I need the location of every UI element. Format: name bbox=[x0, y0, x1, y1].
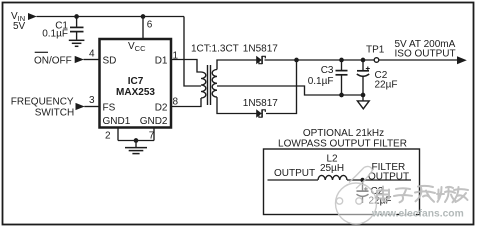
svg-text:D2: D2 bbox=[155, 102, 168, 113]
junction at VCC pin drop bbox=[141, 14, 146, 19]
svg-text:22µF: 22µF bbox=[375, 80, 398, 91]
svg-text:GND1: GND1 bbox=[103, 116, 131, 127]
transformer T1 core bbox=[208, 65, 211, 105]
svg-text:5V: 5V bbox=[13, 21, 26, 32]
wire VCC feed down to primary center tap bbox=[184, 17, 201, 87]
label L2 value bbox=[320, 154, 344, 175]
wire D2 pin 8 to primary bottom bbox=[171, 98, 201, 107]
label OPTIONAL 21kHz LOWPASS OUTPUT FILTER bbox=[278, 128, 407, 149]
svg-text:FS: FS bbox=[103, 102, 116, 113]
capacitor C1 bbox=[70, 17, 84, 40]
watermark hand logo bbox=[336, 166, 377, 224]
label FILTER OUTPUT right bbox=[368, 162, 409, 182]
junction filter cap tap bbox=[360, 178, 364, 182]
svg-text:1: 1 bbox=[173, 51, 179, 62]
test point TP1 bbox=[374, 58, 379, 63]
svg-text:3: 3 bbox=[89, 95, 95, 106]
svg-text:OUTPUT: OUTPUT bbox=[368, 171, 409, 182]
inductor L2 bbox=[318, 175, 347, 180]
svg-text:0.1µF: 0.1µF bbox=[42, 29, 68, 40]
wire VCC pin 6 drop bbox=[142, 17, 144, 40]
svg-text:7: 7 bbox=[149, 131, 155, 142]
wire filter input bbox=[268, 179, 319, 181]
svg-text:1CT:1.3CT: 1CT:1.3CT bbox=[191, 44, 239, 55]
node FREQUENCY SWITCH input arrow bbox=[76, 103, 85, 110]
filter box bbox=[264, 149, 420, 215]
svg-text:FREQUENCY: FREQUENCY bbox=[11, 97, 74, 108]
wire bottom diode riser bbox=[266, 60, 297, 114]
watermark chinese calligraphy bbox=[377, 186, 468, 202]
svg-text:1N5817: 1N5817 bbox=[243, 44, 278, 55]
svg-text:D1: D1 bbox=[155, 55, 168, 66]
wire secondary bottom to lower diode bbox=[217, 97, 257, 113]
diode D4 1N5817 bottom bbox=[256, 109, 265, 117]
node VIN input arrow bbox=[28, 13, 37, 20]
capacitor C2 filter polarized bbox=[357, 180, 369, 203]
svg-text:1N5817: 1N5817 bbox=[243, 98, 278, 109]
transformer T1 primary winding bbox=[201, 72, 206, 98]
wire filter output bbox=[347, 179, 411, 181]
transformer T1 secondary winding bbox=[212, 70, 217, 98]
svg-text:C3: C3 bbox=[321, 65, 334, 76]
junction at C1 tap bbox=[74, 14, 79, 19]
node ON/OFF input arrow bbox=[75, 56, 84, 63]
svg-text:MAX253: MAX253 bbox=[116, 87, 155, 98]
wire FS pin 3 bbox=[84, 106, 99, 108]
iso ground triangle bbox=[362, 95, 364, 101]
svg-text:TP1: TP1 bbox=[366, 45, 385, 56]
svg-text:LOWPASS OUTPUT FILTER: LOWPASS OUTPUT FILTER bbox=[278, 138, 407, 149]
label IC7 MAX253 bbox=[116, 76, 155, 98]
junction ground bus bbox=[134, 138, 139, 143]
svg-text:0.1µF: 0.1µF bbox=[308, 76, 334, 87]
svg-text:4: 4 bbox=[89, 49, 95, 60]
svg-text:OUTPUT: OUTPUT bbox=[274, 168, 315, 179]
svg-text:SWITCH: SWITCH bbox=[35, 108, 74, 119]
svg-text:GND2: GND2 bbox=[140, 116, 168, 127]
label ON/OFF bbox=[34, 52, 72, 66]
svg-text:www.elecfans.com: www.elecfans.com bbox=[371, 208, 464, 219]
svg-text:25µH: 25µH bbox=[320, 163, 344, 174]
ground below C1 bbox=[69, 40, 85, 46]
wire secondary center tap to iso ground rail bbox=[217, 86, 363, 95]
svg-text:IC7: IC7 bbox=[128, 76, 144, 87]
svg-text:6: 6 bbox=[147, 20, 153, 31]
wire ground bus bbox=[118, 140, 154, 142]
wire GND2 pin 7 drop bbox=[153, 128, 155, 141]
svg-text:8: 8 bbox=[173, 97, 179, 108]
junction diode riser on rail bbox=[294, 58, 299, 63]
op-amp U1 : IC7 MAX253 box bbox=[100, 39, 172, 128]
node ISO OUTPUT arrow bbox=[457, 56, 467, 64]
capacitor C2 polarized bbox=[357, 58, 370, 98]
wire ground stub bbox=[135, 141, 137, 148]
svg-text:SD: SD bbox=[103, 55, 117, 66]
wire output rail bbox=[265, 59, 458, 61]
label 5V AT 200mA ISO OUTPUT bbox=[395, 39, 456, 60]
wire SD pin 4 bbox=[84, 59, 100, 61]
label FREQUENCY SWITCH bbox=[11, 97, 74, 119]
svg-text:ISO OUTPUT: ISO OUTPUT bbox=[395, 49, 456, 60]
svg-text:2: 2 bbox=[105, 131, 111, 142]
label VIN 5V bbox=[11, 11, 26, 32]
wire VIN top rail bbox=[37, 16, 185, 18]
diode D3 1N5817 top bbox=[256, 56, 265, 64]
ground below IC bbox=[125, 148, 147, 154]
capacitor C3 bbox=[336, 58, 348, 98]
wire secondary top to diode bbox=[217, 60, 257, 70]
wire GND1 pin 2 drop bbox=[117, 128, 119, 141]
svg-text:ON/OFF: ON/OFF bbox=[34, 56, 72, 67]
wire D1 pin 1 to primary top bbox=[171, 60, 201, 73]
